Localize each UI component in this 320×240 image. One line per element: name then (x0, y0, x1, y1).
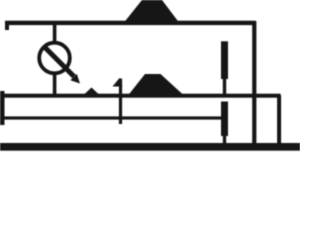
wire: middle rail 2 (0, 116, 222, 119)
arrow: big filled triangle on rail 1 (128, 74, 184, 96)
arrow: big current arrow on top rail pointing up (124, 0, 179, 23)
arrow: small arrowhead on rail 1 (84, 88, 99, 95)
node A: left terminal nub (5, 22, 9, 30)
wire: stub from bottom plate down to bottom rail (223, 136, 226, 143)
wire: top rail (5, 21, 256, 25)
wire: stub from circle down to middle rail 1 (53, 72, 57, 96)
capacitor plate: top (221, 41, 228, 79)
arrow: head at top of x120 branch (113, 78, 123, 87)
arrow: needle through meter pointing lower-right (45, 47, 75, 77)
wire: left C bracket joining rail 1 and rail 2 (0, 91, 5, 125)
wire: bottom rail (0, 143, 300, 151)
source G1: meter circle (39, 43, 70, 74)
wire: far right vertical at x279 (277, 95, 281, 146)
wire: stub from top plate down to rail 1 (223, 79, 226, 95)
wire: middle rail 1 (0, 94, 281, 98)
wire: stub from top rail down to source circle (53, 23, 57, 42)
wire: right vertical at x254 (252, 21, 256, 146)
wire: vertical branch at x120 (119, 79, 122, 125)
capacitor plate: bottom (221, 102, 228, 137)
